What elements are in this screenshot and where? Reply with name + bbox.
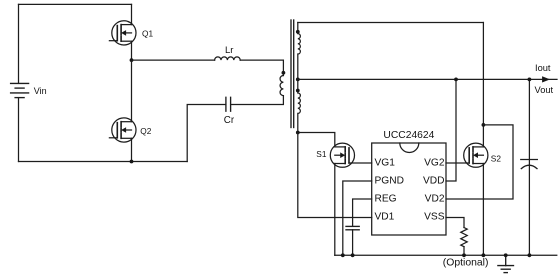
svg-text:VDD: VDD: [423, 176, 445, 187]
node S2 source rail dot: [482, 253, 486, 257]
svg-text:PGND: PGND: [375, 176, 404, 187]
wire VSS to resistor: [446, 218, 464, 228]
wire output cap branch: [528, 79, 530, 255]
node center tap dot: [296, 78, 300, 82]
svg-text:Cr: Cr: [224, 115, 235, 126]
battery Vin: [11, 83, 29, 97]
transformer T1 secondary top winding: [298, 23, 301, 80]
svg-text:UCC24624: UCC24624: [383, 130, 434, 141]
svg-text:Vout: Vout: [535, 85, 554, 95]
wire Vin bottom lead: [18, 98, 20, 162]
svg-text:VSS: VSS: [424, 212, 445, 223]
svg-text:(Optional): (Optional): [443, 257, 489, 268]
capacitor Cr: [226, 97, 231, 111]
node resistor rail dot: [462, 253, 466, 257]
node VDD rail dot: [454, 78, 458, 82]
wire Q1 source to switch node: [131, 41, 133, 60]
arrow Iout current arrow: [542, 77, 549, 82]
op-amp U1 UCC24624 outline: [372, 143, 446, 235]
wire Cr left to bottom-left rail: [187, 105, 226, 162]
node output cap top dot: [528, 78, 532, 82]
capacitor output polarized: [521, 160, 538, 169]
U1 notch: [400, 143, 419, 153]
wire center tap output rail: [298, 78, 557, 80]
transformer T1 secondary bottom winding: [298, 79, 301, 132]
svg-text:Q1: Q1: [142, 29, 153, 39]
wire bypass cap to rail: [352, 230, 354, 256]
wire secondary bottom to S1 drain: [298, 133, 335, 147]
ground symbol: [498, 255, 514, 272]
wire switch node to Lr: [132, 59, 215, 61]
transistor S1: [330, 143, 354, 167]
svg-text:VG1: VG1: [375, 158, 396, 169]
node VD2 junction dot: [482, 123, 486, 127]
wire bottom-left rail: [19, 161, 188, 163]
wire S1 source lead to rail: [334, 164, 336, 256]
svg-text:S2: S2: [491, 153, 502, 163]
wire top-left rail Vin+ to Q1 drain: [19, 3, 132, 5]
svg-text:Iout: Iout: [535, 63, 551, 73]
node REG cap rail dot: [351, 253, 355, 257]
wire VD2 sense: [446, 125, 513, 199]
node PGND rail dot: [341, 253, 345, 257]
transistor S2: [464, 143, 488, 167]
svg-text:S1: S1: [316, 149, 327, 159]
node secondary top phase dot: [296, 30, 300, 34]
transistor Q1: [109, 21, 136, 45]
node ground rail dot: [504, 253, 508, 257]
svg-text:VD2: VD2: [425, 194, 445, 205]
wire S1 gate to VG1: [349, 162, 372, 164]
capacitor REG bypass: [346, 226, 359, 229]
inductor Lr: [215, 57, 241, 60]
wire Q2 drain lead: [131, 60, 133, 122]
svg-text:REG: REG: [375, 194, 397, 205]
svg-text:VG2: VG2: [424, 158, 445, 169]
node primary phase dot: [282, 71, 286, 75]
wire bottom rail secondary: [335, 254, 557, 256]
wire VG2 to S2 gate: [446, 162, 469, 164]
node secondary bottom phase dot: [296, 89, 300, 93]
node VD1 junction dot: [296, 131, 300, 135]
node Q2 source rail dot: [130, 160, 134, 164]
wire Lr to transformer primary top: [240, 60, 283, 75]
transformer T1 core: [291, 20, 294, 128]
wire VD1 sense: [298, 133, 372, 218]
svg-text:Vin: Vin: [34, 86, 47, 96]
node switch-node dot: [130, 58, 134, 62]
wire S2 source lead to rail: [482, 164, 484, 256]
wire resistor to rail: [463, 247, 465, 256]
svg-text:VD1: VD1: [375, 212, 395, 223]
wire S2 drain vertical from top rail: [482, 23, 484, 147]
wire primary bottom to Cr: [231, 96, 284, 105]
wire secondary top rail: [298, 22, 484, 24]
transistor Q2: [109, 118, 136, 142]
svg-text:Q2: Q2: [140, 126, 151, 136]
transformer T1 primary winding: [280, 76, 283, 96]
node output cap bottom dot: [528, 253, 532, 257]
wire PGND: [343, 181, 372, 255]
wire REG to bypass cap: [353, 199, 372, 226]
resistor optional: [461, 228, 467, 247]
wire left rail Vin top lead: [18, 4, 20, 83]
wire Q1 drain lead: [131, 4, 133, 24]
wire Q2 source lead: [131, 138, 133, 161]
wire VDD to output rail: [446, 79, 456, 181]
svg-text:Lr: Lr: [225, 45, 233, 56]
